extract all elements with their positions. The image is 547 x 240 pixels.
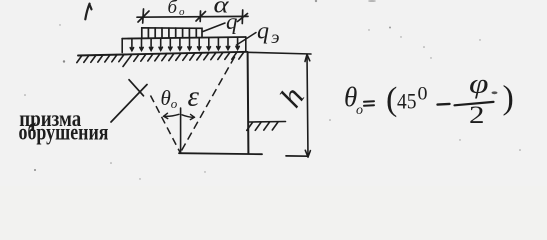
bottom line from apex <box>179 153 262 154</box>
vertical bisector line <box>180 108 182 153</box>
svg-text:э: э <box>271 27 280 47</box>
svg-text:(: ( <box>386 81 397 118</box>
svg-text:o: o <box>356 103 363 118</box>
scan speckles <box>24 0 521 180</box>
svg-text:θ: θ <box>161 86 171 110</box>
leader line to label <box>111 85 147 123</box>
svg-text:0: 0 <box>418 84 428 105</box>
crossing tick on leader <box>129 80 144 96</box>
collapse wedge right dashed line <box>181 57 235 153</box>
dimension line b0/a <box>137 9 248 24</box>
svg-text:φ: φ <box>469 69 489 99</box>
svg-text:ε: ε <box>188 81 200 113</box>
top extension line <box>248 52 311 54</box>
svg-text:q: q <box>226 9 238 34</box>
ground surface with hatching <box>77 52 247 67</box>
bottom extension segment <box>286 155 308 157</box>
svg-text:q: q <box>257 19 269 45</box>
collapse wedge left dashed line <box>151 96 181 153</box>
retaining wall <box>247 52 250 153</box>
label q_э + leader <box>237 33 257 46</box>
h dimension line with arrows <box>305 55 310 158</box>
svg-text:o: o <box>179 6 185 18</box>
svg-text:2: 2 <box>469 102 485 129</box>
svg-text:o: o <box>171 96 178 111</box>
svg-text:45: 45 <box>397 89 417 114</box>
formula θo = (45° − φ/2) <box>344 69 514 130</box>
distributed load q upper block <box>142 28 202 38</box>
svg-text:): ) <box>503 80 514 117</box>
angle arc arrows <box>164 113 195 119</box>
pit bottom with hatching <box>247 122 286 131</box>
handwritten tick mark top-left <box>85 4 91 20</box>
distributed load band with arrows <box>122 37 246 53</box>
label q + leader <box>203 23 225 32</box>
svg-text:б: б <box>168 0 179 18</box>
svg-text:обрушения: обрушения <box>19 120 109 145</box>
